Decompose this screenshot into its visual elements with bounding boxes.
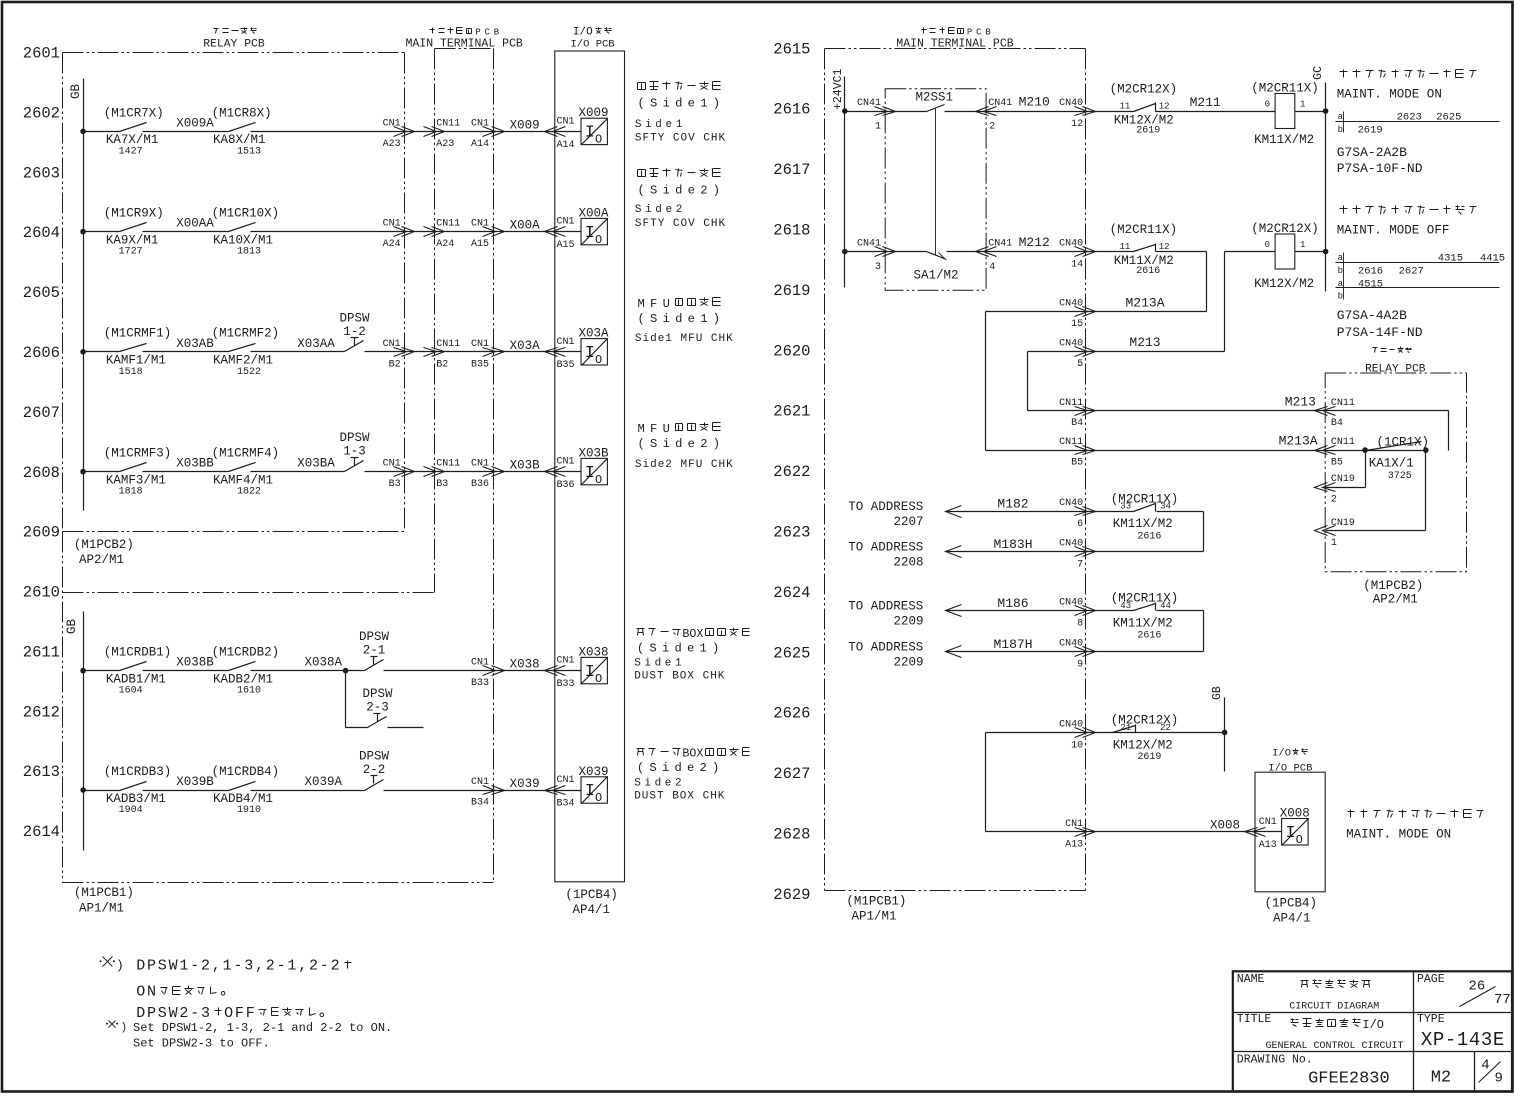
svg-text:1: 1 [1331,538,1337,549]
svg-text:CN41: CN41 [988,98,1012,109]
svg-text:X039A: X039A [304,775,342,789]
wire M211 [1156,95,1276,112]
svg-text:B5: B5 [1331,457,1343,468]
svg-text:O: O [595,473,602,487]
wire M213A (CN40 pin 15) [986,295,1207,450]
wire [251,775,365,791]
svg-text:e: e [688,184,695,198]
svg-text:43: 43 [1120,601,1131,611]
svg-text:GENERAL CONTROL CIRCUIT: GENERAL CONTROL CIRCUIT [1266,1041,1404,1052]
svg-text:I: I [585,124,595,143]
svg-text:CN1: CN1 [471,658,489,669]
svg-text:M213A: M213A [1125,295,1164,310]
svg-text:I: I [585,663,595,682]
svg-text:77: 77 [1494,992,1511,1008]
svg-text:(M1CR10X): (M1CR10X) [212,207,280,221]
svg-text:CN1: CN1 [471,459,489,470]
svg-text:1610: 1610 [237,686,261,697]
svg-text:e: e [688,312,695,326]
wire row 2618 from +24VC1 bus [842,249,927,255]
label GB lower [65,619,79,635]
GB bus lower left [83,612,85,851]
svg-text:B2: B2 [436,359,448,370]
svg-text:1813: 1813 [237,247,261,258]
svg-text:CN11: CN11 [1059,437,1083,448]
svg-text:KAMF1/M1: KAMF1/M1 [106,354,166,368]
wire coil2 to GC bus [1295,249,1329,255]
label (M1PCB2) AP2/M1 under right relay board [1363,579,1423,607]
svg-text:S: S [650,184,657,198]
svg-text:TYPE: TYPE [1417,1013,1445,1026]
svg-text:A23: A23 [436,139,454,150]
svg-text:(M1CRDB4): (M1CRDB4) [212,765,280,779]
annotation MAINT. MODE OFF (2618) [1337,206,1477,238]
svg-text:I/O: I/O [1272,748,1291,760]
connector CN11 pin A24 [424,219,461,251]
svg-text:(M1PCB2): (M1PCB2) [74,538,134,552]
svg-text:(M1PCB2): (M1PCB2) [1363,579,1423,593]
svg-text:26: 26 [1469,979,1486,995]
svg-text:X03AB: X03AB [176,337,214,351]
svg-text:2627: 2627 [1399,265,1424,277]
net label X03A [510,339,541,353]
svg-text:X00A: X00A [510,219,541,233]
svg-text:a: a [1338,253,1344,263]
svg-text:9: 9 [1077,659,1083,670]
svg-text:M: M [638,422,645,436]
svg-text:X039: X039 [579,765,609,779]
title block DRAWING No cell [1237,1054,1390,1089]
connector CN41 pin 3 [857,239,896,273]
svg-text:CN11: CN11 [436,219,460,230]
svg-text:(M1CRMF2): (M1CRMF2) [212,327,280,341]
svg-text:DPSW: DPSW [339,431,370,445]
label I/O PCB header (left) [571,27,615,51]
svg-text:M210: M210 [1019,95,1050,110]
svg-text:A14: A14 [557,140,575,151]
wire node X03AB [143,337,229,352]
svg-text:(: ( [637,642,644,656]
svg-text:X038A: X038A [304,656,342,670]
svg-text:M211: M211 [1190,95,1221,110]
connector CN1 pin B2 (relay board edge) [383,339,415,371]
svg-text:2603: 2603 [23,164,60,182]
svg-text:A13: A13 [1065,839,1083,850]
svg-text:X03BB: X03BB [176,457,214,471]
svg-text:KAMF4/M1: KAMF4/M1 [213,473,273,487]
svg-text:CN40: CN40 [1059,98,1083,109]
GC bus [1312,66,1326,292]
svg-text:S: S [650,437,657,451]
svg-text:(M1CRDB1): (M1CRDB1) [104,646,172,660]
wire [251,337,345,352]
svg-text:CN1: CN1 [1065,819,1083,830]
svg-text:2-2: 2-2 [363,763,386,777]
svg-text:C: C [976,28,981,38]
svg-text:KM12X/M2: KM12X/M2 [1113,738,1173,752]
svg-text:B35: B35 [557,360,575,371]
svg-text:GC: GC [1312,66,1325,80]
svg-text:CN11: CN11 [436,118,460,129]
svg-text:GB: GB [1211,686,1224,700]
svg-text:1910: 1910 [237,805,261,816]
svg-text:CN1: CN1 [557,656,575,667]
DIP switch DPSW 2-2 [359,750,390,791]
relay contact KA9X/M1 [84,207,164,258]
wire M187H to address 2209 [848,637,1095,671]
annotation DUST BOX CHK Side1 [634,627,749,683]
svg-text:d: d [674,642,681,656]
svg-text:i: i [663,184,670,198]
svg-text:B34: B34 [557,798,575,809]
svg-text:MAIN TERMINAL PCB: MAIN TERMINAL PCB [896,38,1013,51]
net label X038 [510,658,540,672]
title block sheet M2 4/9 [1431,1058,1503,1088]
connector CN1 pin B35 (main terminal edge) [471,339,505,371]
svg-text:11: 11 [1120,102,1131,112]
svg-text:DPSW: DPSW [339,311,370,325]
svg-text:B: B [494,28,500,38]
svg-text:2: 2 [700,761,707,775]
svg-text:S: S [649,642,656,656]
svg-text:2209: 2209 [893,655,923,669]
svg-text:(M1CR8X): (M1CR8X) [212,106,272,120]
svg-text:TO ADDRESS: TO ADDRESS [848,599,923,613]
svg-text:A15: A15 [557,240,575,251]
svg-text:X008: X008 [1280,807,1310,821]
relay contact KA8X/M1 [212,106,272,157]
svg-text:(M2CR11X): (M2CR11X) [1251,81,1319,95]
svg-text:(: ( [637,761,644,775]
svg-text:I/O: I/O [1362,1018,1384,1032]
wire M213A into relay board (CN11 B5) [986,434,1426,469]
svg-text:SFTY COV CHK: SFTY COV CHK [635,218,726,230]
svg-text:U: U [663,422,670,436]
MAIN TERMINAL PCB board outline (left) [435,49,494,883]
wire node X00AA [143,217,229,232]
svg-text:(M1CRMF3): (M1CRMF3) [104,447,172,461]
svg-text:44: 44 [1160,601,1171,611]
svg-text:O: O [595,672,602,686]
annotation SFTY COV CHK Side1 [635,82,726,145]
svg-text:RELAY PCB: RELAY PCB [203,39,265,51]
svg-text:X008: X008 [1210,818,1240,832]
svg-text:2: 2 [700,184,707,198]
GB bus upper left [83,79,85,511]
wire [251,457,345,472]
svg-text:TO ADDRESS: TO ADDRESS [848,500,923,514]
wire [384,790,582,792]
svg-text:34: 34 [1160,502,1171,512]
svg-text:d: d [675,184,682,198]
net label X03B [510,459,541,473]
relay contact KM12X/M2 (M2CR12X 21-22) [1111,714,1179,763]
relay contact KADB1/M1 [84,646,172,697]
svg-text:B33: B33 [557,679,575,690]
connector CN11 pin B2 [424,339,461,371]
svg-text:A14: A14 [471,139,489,150]
relay contact KM11X/M2 (M2CR11X 11-12) [1110,223,1178,277]
svg-text:1522: 1522 [237,367,261,378]
svg-text:KM11X/M2: KM11X/M2 [1113,616,1173,630]
svg-text:1904: 1904 [119,805,143,816]
svg-text:B3: B3 [389,479,401,490]
svg-text:I/O PCB: I/O PCB [571,39,615,51]
label MAIN TERMINAL PCB header (right) [896,28,1013,51]
svg-text:KM11X/M2: KM11X/M2 [1254,133,1314,147]
connector CN11 pin A23 [424,118,461,149]
svg-text:CN40: CN40 [1059,539,1083,550]
GB bus (right) [1211,686,1227,771]
svg-text:2: 2 [1331,495,1337,506]
svg-text:KM11X/M2: KM11X/M2 [1113,517,1173,531]
svg-text:i: i [662,761,669,775]
svg-text:e: e [687,642,694,656]
relay contact KM12X/M2 (M2CR12X 11-12) [1110,83,1178,137]
svg-text:12: 12 [1159,242,1170,252]
svg-text:S: S [650,312,657,326]
cross reference table coil KM12X [1336,253,1506,302]
svg-text:2616: 2616 [1137,631,1161,642]
svg-text:MAINT. MODE ON: MAINT. MODE ON [1346,828,1451,842]
svg-text:22: 22 [1160,723,1171,733]
connector CN1 pin B34 (main terminal edge) [471,777,505,809]
svg-text:CN11: CN11 [436,459,460,470]
svg-text:X03B: X03B [579,446,610,460]
title block TITLE cell [1237,1013,1404,1052]
svg-text:4: 4 [1481,1058,1489,1074]
svg-text:DRAWING No.: DRAWING No. [1237,1054,1313,1067]
svg-text:X00A: X00A [579,206,610,220]
svg-text:DPSW2-3: DPSW2-3 [136,1005,212,1022]
svg-text:2618: 2618 [773,222,810,240]
net label M210 [1019,95,1050,110]
relay contact KA7X/M1 [84,106,164,157]
svg-text:1518: 1518 [119,367,143,378]
svg-text:X038B: X038B [176,656,214,670]
svg-text:XP-143E: XP-143E [1421,1029,1505,1051]
wire [251,231,582,233]
label (M1PCB1) AP1/M1 under lower left board [74,886,134,915]
svg-text:(M1PCB1): (M1PCB1) [74,886,134,900]
svg-text:14: 14 [1071,260,1083,271]
svg-text:2616: 2616 [1358,265,1383,277]
M2SS1 selector switch enclosure [885,89,986,291]
svg-text:9: 9 [1495,1071,1503,1087]
svg-text:TO ADDRESS: TO ADDRESS [848,541,923,555]
svg-text:X039B: X039B [176,775,214,789]
connector CN11 pin B3 [424,459,461,491]
svg-text:M213: M213 [1129,335,1160,350]
svg-text:O: O [595,233,602,247]
svg-text:DUST BOX CHK: DUST BOX CHK [634,791,725,803]
svg-text:M213A: M213A [1279,434,1318,449]
svg-text:GB: GB [65,619,79,635]
I/O port symbol X039 [579,765,609,805]
svg-text:): ) [713,437,720,451]
svg-text:0: 0 [1265,240,1270,250]
svg-text:B2: B2 [389,359,401,370]
svg-text:G7SA-2A2B: G7SA-2A2B [1337,145,1407,160]
svg-text:15: 15 [1071,319,1083,330]
svg-text:2613: 2613 [23,763,60,781]
title block NAME cell [1237,973,1380,1012]
svg-text:DPSW: DPSW [362,687,393,701]
connector CN1 pin B36 (main terminal edge) [471,459,505,491]
svg-text:CN1: CN1 [471,118,489,129]
svg-text:RELAY PCB: RELAY PCB [1365,364,1426,376]
svg-text:M187H: M187H [993,637,1032,652]
svg-text:CN1: CN1 [471,219,489,230]
svg-text:CN41: CN41 [857,239,881,250]
svg-text:CN1: CN1 [557,337,575,348]
svg-text:I: I [585,344,595,363]
svg-text:i: i [663,437,670,451]
svg-text:2628: 2628 [773,826,810,844]
wire M213 (CN40 pin 5) [1028,335,1225,410]
svg-text:X038: X038 [579,645,609,659]
svg-text:B33: B33 [471,678,489,689]
svg-text:NAME: NAME [1237,973,1265,986]
label RELAY PCB header (right) [1365,347,1426,376]
relay contact KADB4/M1 [212,765,280,816]
svg-text:G7SA-4A2B: G7SA-4A2B [1337,308,1407,323]
wire [945,111,1134,113]
relay coil KM11X/M2 (M2CR11X) [1251,81,1319,147]
svg-text:KAMF2/M1: KAMF2/M1 [213,354,273,368]
connector CN41 pin 1 [857,98,896,132]
junction dot GB bus row [80,349,86,355]
svg-text:2623: 2623 [773,524,810,542]
svg-text:M182: M182 [997,497,1028,512]
svg-text:2624: 2624 [773,584,810,602]
svg-text:(M1PCB1): (M1PCB1) [846,894,906,908]
svg-text:KADB2/M1: KADB2/M1 [213,672,273,686]
svg-text:DUST BOX CHK: DUST BOX CHK [634,671,725,683]
svg-text:d: d [675,97,682,111]
svg-text:CN1: CN1 [557,457,575,468]
svg-text:e: e [688,97,695,111]
svg-text:X03AA: X03AA [297,337,335,351]
svg-text:): ) [713,184,720,198]
wire [384,670,582,672]
svg-text:): ) [116,958,124,973]
relay contact KAMF4/M1 [212,447,280,498]
svg-text:X009: X009 [579,106,609,120]
relay coil KM12X/M2 (M2CR12X) [1251,222,1319,291]
svg-text:a: a [1338,112,1344,122]
connector CN41 pin 4 [976,239,1013,273]
svg-text:(M2CR12X): (M2CR12X) [1110,83,1178,97]
wire CN40 pin 10 row 2626 [986,719,1225,831]
relay contact KADB3/M1 [84,765,172,816]
RELAY PCB board outline (right M1PCB2) [1325,373,1466,572]
label (M1PCB2) AP2/M1 under upper relay board [74,538,134,567]
svg-text:P: P [967,28,972,38]
svg-text:X03A: X03A [579,327,610,341]
svg-text:2616: 2616 [1136,266,1160,277]
svg-text:O: O [595,353,602,367]
connector CN1 pin B35 (I/O board edge) [545,337,575,371]
relay contact KAMF3/M1 [84,447,172,498]
svg-text:AP1/M1: AP1/M1 [852,910,897,924]
svg-text:X009A: X009A [176,117,214,131]
MAIN TERMINAL PCB board outline (right M1PCB1) [825,49,1086,891]
annotation SFTY COV CHK Side2 [635,169,726,231]
svg-text:d: d [675,312,682,326]
label (M1PCB1) AP1/M1 under right main board [846,894,906,923]
svg-text:AP4/1: AP4/1 [1273,912,1311,926]
svg-text:MAIN TERMINAL PCB: MAIN TERMINAL PCB [406,38,523,51]
svg-text:I: I [1285,824,1295,843]
wire row 2616 from +24VC1 bus [842,108,927,114]
svg-text:12: 12 [1071,119,1083,130]
svg-text:2610: 2610 [23,584,60,602]
svg-text:1822: 1822 [237,487,261,498]
wire M186 to address 2209 [848,596,1133,630]
I/O port symbol X03A [579,327,610,367]
svg-text:): ) [713,97,720,111]
svg-text:KADB1/M1: KADB1/M1 [106,672,166,686]
svg-text:CN40: CN40 [1059,339,1083,350]
svg-text:(M2CR12X): (M2CR12X) [1251,222,1319,236]
svg-text:CN40: CN40 [1059,719,1083,730]
svg-text:GFEE2830: GFEE2830 [1308,1070,1390,1089]
svg-text:A23: A23 [383,139,401,150]
DIP switch DPSW 2-1 [359,630,390,670]
svg-text:A24: A24 [436,239,454,250]
svg-text:A13: A13 [1259,840,1277,851]
svg-text:C: C [485,28,490,38]
svg-text:12: 12 [1159,102,1170,112]
svg-text:(M1CR7X): (M1CR7X) [104,106,164,120]
svg-text:2602: 2602 [23,105,60,123]
svg-text:AP4/1: AP4/1 [573,903,611,917]
connector CN1 pin A24 (relay board edge) [383,219,415,251]
svg-text:2622: 2622 [773,463,810,481]
svg-text:(1PCB4): (1PCB4) [1265,897,1318,911]
connector CN40 pin 12 [1059,98,1095,130]
svg-text:P7SA-14F-ND: P7SA-14F-ND [1337,325,1423,340]
relay contact KAMF2/M1 [212,327,280,378]
svg-text:2615: 2615 [773,40,810,58]
svg-text:2612: 2612 [23,703,60,721]
wire [251,131,582,133]
svg-text:2626: 2626 [773,705,810,723]
svg-text:2609: 2609 [23,524,60,542]
svg-text:CIRCUIT DIAGRAM: CIRCUIT DIAGRAM [1289,1001,1379,1012]
DIP switch DPSW 1-3 [339,431,370,471]
svg-text:O: O [595,791,602,805]
svg-text:S: S [650,97,657,111]
svg-text:(M1CR9X): (M1CR9X) [104,207,164,221]
svg-text:2601: 2601 [23,45,60,63]
I/O port symbol X038 [579,645,609,685]
svg-text:F: F [650,297,657,311]
svg-text:X00AA: X00AA [176,217,214,231]
svg-text:KA8X/M1: KA8X/M1 [213,133,266,147]
svg-text:4515: 4515 [1358,278,1383,290]
svg-text:DPSW: DPSW [359,630,390,644]
wire [365,351,582,353]
svg-text:CN11: CN11 [1331,398,1355,409]
svg-text:ON: ON [136,984,158,1001]
svg-text:P7SA-10F-ND: P7SA-10F-ND [1337,161,1423,176]
svg-text:d: d [674,761,681,775]
wire contact to CN19 pin 2 [1315,451,1366,506]
svg-text:8: 8 [1077,618,1083,629]
connector CN1 pin B3 (relay board edge) [383,459,415,491]
